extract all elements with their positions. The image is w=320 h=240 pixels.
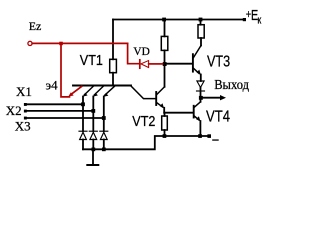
svg-text:VT2: VT2 <box>132 112 155 129</box>
svg-text:X3: X3 <box>15 118 31 133</box>
svg-text:X2: X2 <box>6 103 22 118</box>
svg-text:VT3: VT3 <box>207 53 230 71</box>
svg-text:VD: VD <box>133 45 149 58</box>
svg-text:к: к <box>257 15 261 27</box>
svg-text:Ez: Ez <box>29 19 42 33</box>
svg-text:VT4: VT4 <box>206 108 230 125</box>
svg-text:Выход: Выход <box>214 76 249 92</box>
svg-text:X1: X1 <box>16 84 32 99</box>
svg-text:VT1: VT1 <box>80 51 103 68</box>
svg-text:э4: э4 <box>46 78 59 93</box>
